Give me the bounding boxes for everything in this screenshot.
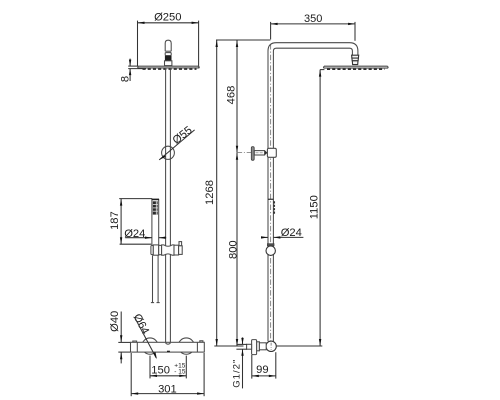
shower arm side view [268, 43, 358, 56]
svg-text:- 15: - 15 [174, 369, 186, 376]
extension line at mixer axis left [214, 345, 243, 347]
mixer bar right nub [200, 341, 203, 343]
mixer side wall flange [252, 340, 257, 355]
main riser pipe front [166, 68, 171, 342]
svg-text:800: 800 [228, 240, 240, 259]
hand shower edge strip behind pipe [273, 201, 275, 214]
dimension 1150 extension top [320, 69, 324, 71]
holder collar side [267, 244, 274, 246]
svg-text:350: 350 [304, 13, 322, 25]
diverter knob flange [251, 147, 254, 161]
dimension 1268 line [216, 40, 218, 346]
svg-text:468: 468 [226, 86, 238, 105]
dimension Ø24 side line [262, 236, 304, 238]
shower head side view [323, 66, 388, 68]
dimension 800 arrows [236, 153, 238, 346]
pipe joint dark band [268, 199, 273, 200]
mixer outlet tick [167, 351, 170, 352]
diverter slider block [267, 148, 276, 157]
mixer side body [257, 342, 267, 351]
hand shower top dark edge [152, 198, 159, 200]
svg-text:150: 150 [151, 365, 170, 377]
dimension 99 extension lines [252, 352, 276, 378]
top collar [165, 61, 172, 66]
dimension Ø24 front arrows [145, 237, 166, 239]
dimension 1150 arrows [319, 70, 321, 346]
dimension 350 line [271, 22, 356, 41]
dimension 1150 line [319, 70, 321, 346]
mixer side circle centerline [270, 343, 272, 350]
arm connector nut [352, 55, 359, 64]
hand shower handle [152, 200, 159, 246]
svg-text:99: 99 [256, 364, 268, 376]
svg-text:1268: 1268 [204, 180, 216, 205]
Ø55 leader line [159, 130, 194, 160]
dimension 150 line [150, 375, 186, 377]
Ø64 leader arrow [153, 352, 157, 359]
hand shower hose [151, 255, 160, 302]
dimension 800 line [236, 153, 238, 346]
shower head side dashes [327, 68, 385, 70]
diverter centerline [238, 152, 252, 154]
mixer bar left nub [133, 341, 137, 342]
svg-text:8: 8 [119, 76, 131, 82]
slide connector circle Ø55 [162, 146, 175, 159]
mixer side: pipe joint band [268, 341, 273, 342]
dimension 350 arrows [271, 23, 356, 25]
pipe socket into mixer [166, 342, 170, 344]
mixer side inlet nipple [247, 344, 252, 349]
shower head spray face dashes [143, 68, 197, 70]
diverter knob shaft [254, 151, 264, 155]
dimension 468 line [236, 40, 238, 153]
holder ball side [266, 246, 275, 255]
dimension Ø40 arrows [120, 335, 122, 359]
dimension 1268 extension bottom [214, 345, 243, 347]
dimension 301 arrows [131, 392, 204, 394]
svg-text:187: 187 [109, 211, 121, 230]
riser pipe through circle [166, 147, 171, 160]
dimension 1268 arrows [216, 40, 218, 346]
riser pipe centerline [270, 44, 272, 342]
svg-text:G1/2": G1/2" [232, 359, 243, 388]
G1/2 arrows [241, 338, 243, 356]
dimension 99 arrows [252, 375, 276, 377]
top connector dark nut [165, 55, 172, 61]
dimension Ø24 front line [125, 237, 166, 239]
dimension 301 line [131, 393, 204, 395]
dimension Ø24 side arrows [261, 236, 280, 238]
top pipe cap [165, 40, 171, 55]
svg-text:Ø40: Ø40 [109, 311, 121, 332]
shower head front view [138, 66, 200, 68]
dimension 150 arrows [150, 375, 186, 377]
dimension 301 extension lines [131, 353, 204, 396]
hand shower holder front [151, 242, 182, 256]
G1/2 extension lines [236, 344, 247, 349]
diverter shaft tip [265, 150, 268, 155]
dimension 99 line [252, 375, 276, 377]
dimension 150 extension lines [150, 356, 186, 379]
svg-text:1150: 1150 [309, 195, 321, 219]
valve circle left Ø64 [142, 338, 158, 354]
mixer side circle [266, 341, 276, 351]
riser pipe side view [268, 51, 273, 341]
G1/2 dimension line [242, 337, 244, 388]
dimension 8 extension lines [128, 59, 146, 81]
dimension 468 arrows [236, 40, 238, 153]
dimension 187 line [120, 199, 122, 245]
dimension Ø250 arrows [138, 22, 199, 24]
dimension 1268 extension top [216, 39, 270, 41]
dimension 8 arrows [129, 60, 131, 76]
mixer bar end caps [137, 342, 197, 352]
hand shower spray grid [153, 201, 158, 214]
Ø64 leader line [135, 317, 157, 358]
dimension Ø250 line [138, 21, 199, 68]
svg-text:Ø250: Ø250 [154, 12, 181, 24]
dimension Ø40 line [118, 312, 130, 364]
valve circle right [178, 338, 194, 354]
dimension 187 extension lines [119, 199, 152, 245]
dimension 187 arrows [120, 199, 122, 245]
Ø55 leader arrow [159, 155, 165, 160]
svg-text:301: 301 [158, 383, 177, 395]
diverter shaft inner line [256, 152, 264, 154]
extension line at mixer axis right [277, 345, 323, 347]
mixer bar front [131, 342, 205, 352]
